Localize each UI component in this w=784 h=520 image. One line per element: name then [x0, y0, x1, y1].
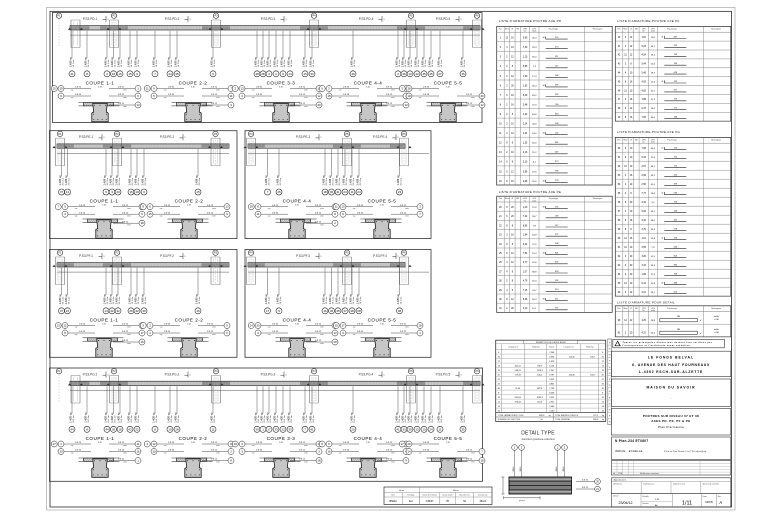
- bottom material table: [384, 487, 492, 505]
- svg-text:1 Ø 20: 1 Ø 20: [79, 331, 86, 333]
- svg-text:Bureau de contrôle: Bureau de contrôle: [703, 483, 719, 486]
- svg-text:41: 41: [70, 72, 74, 76]
- span label P.S3.PG.1: [83, 372, 110, 378]
- span label P.S3.PG.2: [165, 372, 192, 378]
- vertical index strip: [608, 339, 612, 425]
- svg-text:14: 14: [104, 309, 108, 313]
- section COUPE 1-1: [51, 81, 141, 122]
- title block revision table: [611, 461, 730, 476]
- svg-text:18: 18: [323, 190, 327, 194]
- svg-text:Nbre: Nbre: [623, 27, 627, 30]
- svg-text:etrier: etrier: [391, 96, 395, 99]
- svg-text:179,43: 179,43: [515, 375, 522, 377]
- svg-text:Ingénieur g.c.: Ingénieur g.c.: [643, 483, 655, 486]
- svg-text:COUPE 5-5: COUPE 5-5: [368, 199, 397, 204]
- svg-text:12: 12: [63, 324, 67, 328]
- svg-text:COUPE 2-2: COUPE 2-2: [175, 199, 204, 204]
- title block plan number: [611, 437, 730, 460]
- svg-text:16: 16: [118, 72, 122, 76]
- svg-text:2 Ø 12: 2 Ø 12: [118, 87, 125, 89]
- svg-text:20 1.4m: 20 1.4m: [411, 415, 413, 423]
- svg-text:20 1.4m: 20 1.4m: [138, 297, 140, 305]
- svg-text:40: 40: [543, 85, 545, 87]
- svg-text:COUPE 4-4: COUPE 4-4: [283, 318, 312, 323]
- svg-text:sup: sup: [419, 90, 422, 92]
- svg-text:P.S3.PD.5: P.S3.PD.5: [436, 17, 451, 21]
- section COUPE 2-2: [144, 81, 234, 122]
- svg-text:4,54: 4,54: [641, 55, 646, 57]
- svg-text:etrier: etrier: [304, 96, 308, 99]
- svg-text:13: 13: [66, 190, 70, 194]
- svg-text:etrier: etrier: [471, 96, 475, 99]
- svg-text:4,82: 4,82: [641, 90, 646, 92]
- svg-text:13: 13: [333, 331, 337, 335]
- band 3 (axe PF) left box: [50, 250, 238, 358]
- svg-text:etrier: etrier: [123, 89, 127, 92]
- svg-text:sup: sup: [339, 445, 342, 447]
- svg-text:Enr: Enr: [409, 500, 413, 503]
- svg-text:LISTE D'ARMATURE POUR DETAIL: LISTE D'ARMATURE POUR DETAIL: [617, 301, 675, 305]
- beam strip: [57, 263, 229, 272]
- svg-text:P.S3.PD.1: P.S3.PD.1: [83, 17, 98, 21]
- svg-text:1,43: 1,43: [523, 207, 528, 209]
- svg-text:15: 15: [461, 72, 465, 76]
- svg-text:etrier: etrier: [405, 214, 409, 217]
- svg-text:etrier: etrier: [391, 105, 395, 108]
- svg-text:17: 17: [401, 442, 405, 446]
- svg-text:etrier: etrier: [123, 105, 127, 108]
- svg-text:L-4362 ESCH-SUR-ALZETTE: L-4362 ESCH-SUR-ALZETTE: [639, 370, 703, 374]
- svg-text:20 1.4m: 20 1.4m: [199, 297, 201, 305]
- svg-text:2 Ø 12: 2 Ø 12: [118, 442, 125, 444]
- svg-text:28: 28: [357, 309, 361, 313]
- svg-text:2 Ø 12: 2 Ø 12: [207, 205, 214, 207]
- svg-text:P.S3.PD.2: P.S3.PD.2: [165, 17, 180, 21]
- svg-text:Rev: Rev: [718, 496, 721, 498]
- svg-text:1:25: 1:25: [295, 205, 299, 207]
- svg-text:1 Ø 20: 1 Ø 20: [272, 205, 279, 207]
- svg-text:20 1.4m: 20 1.4m: [171, 60, 173, 68]
- svg-text:20 1.4m: 20 1.4m: [214, 60, 216, 68]
- svg-text:38: 38: [255, 72, 259, 76]
- title block drawing name: [611, 409, 730, 436]
- svg-text:sup: sup: [71, 453, 74, 455]
- svg-text:538,24: 538,24: [515, 370, 522, 372]
- svg-text:5,31: 5,31: [641, 283, 646, 285]
- svg-text:kg: kg: [602, 415, 604, 417]
- svg-text:20 1.4m: 20 1.4m: [326, 297, 328, 305]
- svg-text:Pos: Pos: [499, 28, 502, 30]
- svg-text:Classe d'expo.: Classe d'expo.: [442, 494, 453, 496]
- svg-text:1,07: 1,07: [523, 271, 528, 273]
- svg-text:Poids kg: Poids kg: [586, 346, 593, 348]
- svg-text:20 1.4m: 20 1.4m: [108, 415, 110, 423]
- svg-text:P.S3.PD.4: P.S3.PD.4: [359, 17, 374, 21]
- svg-text:NOMBRE DE POSITIONS: NOMBRE DE POSITIONS: [498, 419, 521, 421]
- svg-text:44: 44: [105, 427, 109, 431]
- svg-text:1:25: 1:25: [191, 442, 195, 444]
- svg-text:2 Ø 12: 2 Ø 12: [400, 324, 407, 326]
- svg-text:39: 39: [351, 72, 355, 76]
- svg-text:P.S3.PG.5: P.S3.PG.5: [436, 373, 451, 377]
- svg-text:sup: sup: [419, 445, 422, 447]
- svg-text:2 Ø 12: 2 Ø 12: [118, 450, 125, 452]
- svg-text:TOTAL BARRES+TREILLIS: TOTAL BARRES+TREILLIS: [555, 414, 579, 417]
- svg-text:etrier: etrier: [405, 326, 409, 329]
- svg-text:1 Ø 20: 1 Ø 20: [357, 205, 364, 207]
- svg-text:44: 44: [70, 427, 74, 431]
- span label P.S3.PE.2: [160, 134, 187, 140]
- svg-text:39: 39: [408, 427, 412, 431]
- svg-text:2 Ø 12: 2 Ø 12: [211, 103, 218, 105]
- svg-text:20 1.4m: 20 1.4m: [339, 178, 341, 186]
- support label circles: [57, 250, 218, 285]
- svg-text:sup: sup: [353, 334, 356, 336]
- svg-text:4,76: 4,76: [523, 281, 528, 283]
- svg-text:1:25: 1:25: [102, 205, 106, 207]
- svg-text:1 Ø 20: 1 Ø 20: [75, 94, 82, 96]
- svg-text:20 1.4m: 20 1.4m: [268, 297, 270, 305]
- svg-text:20 1.4m: 20 1.4m: [425, 60, 427, 68]
- svg-text:16: 16: [140, 340, 144, 344]
- svg-text:20 1.4m: 20 1.4m: [464, 60, 466, 68]
- svg-text:1 Ø 20: 1 Ø 20: [164, 205, 171, 207]
- svg-text:2,47: 2,47: [641, 108, 646, 110]
- svg-text:16: 16: [136, 450, 140, 454]
- svg-text:30274: 30274: [593, 419, 598, 421]
- svg-text:2 Ø 12: 2 Ø 12: [299, 442, 306, 444]
- svg-text:13: 13: [404, 103, 408, 107]
- svg-text:sup: sup: [353, 327, 356, 329]
- svg-text:P.S3.PD.3: P.S3.PD.3: [261, 17, 276, 21]
- svg-text:à 2M: à 2M: [714, 332, 719, 334]
- svg-text:1,89: 1,89: [641, 99, 646, 101]
- svg-text:à 2M: à 2M: [714, 319, 719, 321]
- svg-text:12: 12: [480, 103, 484, 107]
- svg-text:2 Ø 12: 2 Ø 12: [466, 103, 473, 105]
- svg-text:11: 11: [137, 442, 140, 446]
- svg-text:127,1: 127,1: [593, 415, 598, 417]
- svg-text:20 1.4m: 20 1.4m: [121, 415, 123, 423]
- svg-text:20 1.4m: 20 1.4m: [145, 297, 147, 305]
- svg-text:20 1.4m: 20 1.4m: [214, 415, 216, 423]
- svg-text:1/11: 1/11: [682, 501, 692, 507]
- table LISTE D'ARMATURE POUTRE AXE PF: [615, 19, 731, 121]
- rebar position leaders and callout circles: [265, 268, 403, 314]
- svg-text:20 1.4m: 20 1.4m: [68, 178, 70, 186]
- svg-text:2 Ø 12: 2 Ø 12: [386, 94, 393, 96]
- svg-text:sup: sup: [160, 334, 163, 336]
- svg-text:2,16: 2,16: [523, 152, 528, 154]
- svg-text:19: 19: [168, 427, 172, 431]
- svg-text:18: 18: [407, 87, 411, 91]
- svg-text:2 Ø 12: 2 Ø 12: [386, 459, 393, 461]
- svg-text:sup: sup: [419, 453, 422, 455]
- svg-text:LISTE D'ARMATURE POUTRE AXE PG: LISTE D'ARMATURE POUTRE AXE PG: [617, 130, 680, 134]
- svg-text:40: 40: [661, 238, 663, 240]
- svg-text:44: 44: [168, 72, 172, 76]
- span label P.S3.PF.4: [373, 253, 399, 259]
- svg-text:P.S3.PE.2: P.S3.PE.2: [160, 135, 175, 139]
- svg-text:1 Ø 20: 1 Ø 20: [343, 450, 350, 452]
- svg-text:1:25: 1:25: [279, 86, 283, 88]
- section COUPE 5-5: [399, 81, 485, 122]
- svg-text:1 Ø 20: 1 Ø 20: [256, 450, 263, 452]
- svg-text:2 Ø 12: 2 Ø 12: [207, 324, 214, 326]
- svg-text:1 Ø 20: 1 Ø 20: [343, 94, 350, 96]
- svg-text:38: 38: [350, 309, 354, 313]
- svg-text:etrier: etrier: [320, 214, 324, 217]
- support label circles: [248, 131, 406, 166]
- svg-text:18: 18: [250, 205, 254, 209]
- title block address: [611, 351, 730, 377]
- svg-text:33: 33: [402, 427, 406, 431]
- svg-text:sup: sup: [268, 208, 271, 210]
- svg-text:COUPE 5-5: COUPE 5-5: [434, 81, 463, 86]
- svg-text:13: 13: [225, 205, 229, 209]
- section COUPE 4-4: [319, 436, 409, 477]
- svg-text:sup: sup: [339, 90, 342, 92]
- svg-text:etrier: etrier: [405, 207, 409, 210]
- svg-text:1:25: 1:25: [279, 442, 283, 444]
- support columns: [244, 257, 412, 285]
- svg-text:kg: kg: [549, 415, 551, 417]
- svg-text:2 Ø 12: 2 Ø 12: [207, 331, 214, 333]
- svg-text:2 Ø 12: 2 Ø 12: [122, 340, 129, 342]
- svg-text:33: 33: [274, 427, 278, 431]
- svg-text:1,01: 1,01: [641, 238, 646, 240]
- svg-text:etrier: etrier: [471, 452, 475, 455]
- svg-text:37: 37: [60, 309, 64, 313]
- svg-text:20: 20: [317, 103, 321, 107]
- svg-text:B500A: B500A: [390, 500, 398, 503]
- svg-text:20 1.4m: 20 1.4m: [353, 297, 355, 305]
- svg-text:1 Ø 20: 1 Ø 20: [164, 324, 171, 326]
- svg-text:7,368: 7,368: [549, 352, 555, 354]
- section COUPE 4-4: [248, 318, 338, 358]
- svg-text:2,959: 2,959: [549, 379, 555, 381]
- svg-text:2,15: 2,15: [523, 162, 528, 164]
- rebar position leaders and callout circles: [59, 268, 202, 314]
- svg-text:DETAIL TYPE: DETAIL TYPE: [521, 431, 555, 437]
- svg-text:1378,3: 1378,3: [537, 370, 544, 372]
- svg-text:2 Ø 12: 2 Ø 12: [118, 459, 125, 461]
- svg-text:3,42: 3,42: [641, 220, 646, 222]
- svg-text:20 1.4m: 20 1.4m: [138, 178, 140, 186]
- svg-text:etrier: etrier: [320, 326, 324, 329]
- svg-text:1,15: 1,15: [523, 57, 528, 59]
- svg-text:etrier: etrier: [212, 326, 216, 329]
- detail type drawing: [502, 431, 601, 502]
- svg-text:24: 24: [357, 190, 361, 194]
- svg-text:sup: sup: [160, 327, 163, 329]
- support label circles: [248, 250, 406, 285]
- svg-text:4,31: 4,31: [641, 333, 646, 335]
- svg-text:MAISON DU SAVOIR: MAISON DU SAVOIR: [646, 385, 695, 389]
- span label P.S3.PE.1: [79, 134, 106, 140]
- svg-text:476,44: 476,44: [515, 402, 522, 404]
- svg-text:18: 18: [317, 459, 321, 463]
- svg-text:sup: sup: [75, 208, 78, 210]
- table LISTE D'ARMATURE POUTRE AXE PD: [497, 19, 613, 185]
- svg-text:19: 19: [135, 190, 139, 194]
- svg-text:20 1.4m: 20 1.4m: [121, 60, 123, 68]
- svg-text:1 Ø 20: 1 Ø 20: [423, 450, 430, 452]
- svg-text:etrier: etrier: [216, 89, 220, 92]
- svg-text:20 1.4m: 20 1.4m: [171, 415, 173, 423]
- rebar position leaders and callout circles: [59, 149, 202, 195]
- svg-text:P.S3.PG.2: P.S3.PG.2: [165, 373, 180, 377]
- span label P.S3.PD.3: [261, 16, 288, 22]
- svg-text:1,42: 1,42: [523, 114, 528, 116]
- svg-text:B Ind de Plan Niveau 3 ref T16: B Ind de Plan Niveau 3 ref T16 Ind(ind)(…: [664, 450, 707, 453]
- svg-text:35: 35: [336, 309, 340, 313]
- svg-text:22: 22: [135, 427, 139, 431]
- svg-text:etrier: etrier: [405, 333, 409, 336]
- svg-text:1:25: 1:25: [366, 442, 370, 444]
- svg-text:1,81: 1,81: [641, 37, 646, 39]
- svg-text:etrier: etrier: [216, 444, 220, 447]
- svg-text:etrier: etrier: [212, 207, 216, 210]
- support label circles: [56, 369, 479, 404]
- svg-text:502,63: 502,63: [515, 397, 522, 399]
- svg-text:Remarques: Remarques: [711, 138, 721, 141]
- svg-text:Approbations: Approbations: [614, 479, 628, 482]
- svg-text:3,32: 3,32: [641, 202, 646, 204]
- svg-text:20 1.4m: 20 1.4m: [400, 297, 402, 305]
- svg-text:2 Ø 12: 2 Ø 12: [466, 459, 473, 461]
- svg-text:5,34: 5,34: [523, 244, 528, 246]
- svg-text:REPARTITION DE L'ACIER B500B: REPARTITION DE L'ACIER B500B: [536, 341, 566, 344]
- svg-text:32: 32: [116, 309, 120, 313]
- svg-text:20 1.4m: 20 1.4m: [441, 60, 443, 68]
- svg-text:50: 50: [541, 419, 543, 421]
- svg-text:4,24: 4,24: [523, 133, 528, 135]
- svg-text:1:25: 1:25: [98, 442, 102, 444]
- svg-text:20 1.4m: 20 1.4m: [313, 415, 315, 423]
- svg-text:Totaux: Totaux: [549, 345, 555, 348]
- svg-text:etrier: etrier: [216, 461, 220, 464]
- svg-text:156,7: 156,7: [590, 375, 596, 377]
- svg-text:20 1.4m: 20 1.4m: [418, 415, 420, 423]
- svg-text:20 1.4m: 20 1.4m: [432, 60, 434, 68]
- svg-text:3,77: 3,77: [523, 262, 528, 264]
- svg-text:40: 40: [661, 283, 663, 285]
- svg-text:Modifications armatures: Modifications armatures: [640, 472, 659, 475]
- svg-text:2,56: 2,56: [641, 175, 646, 177]
- svg-text:17: 17: [140, 331, 144, 335]
- section COUPE 1-1: [55, 318, 145, 358]
- svg-text:42: 42: [110, 309, 114, 313]
- svg-text:sup: sup: [71, 90, 74, 92]
- svg-text:Façonnage: Façonnage: [667, 28, 676, 30]
- svg-text:COUPE 2-2: COUPE 2-2: [179, 436, 208, 441]
- svg-text:17: 17: [53, 442, 57, 446]
- svg-text:Pos: Pos: [617, 28, 620, 30]
- svg-text:42: 42: [128, 427, 132, 431]
- svg-text:2 Ø 12: 2 Ø 12: [299, 87, 306, 89]
- svg-text:2 Ø 12: 2 Ø 12: [122, 324, 129, 326]
- svg-text:1:25: 1:25: [187, 205, 191, 207]
- svg-text:COUPE 2-2: COUPE 2-2: [175, 318, 204, 323]
- svg-text:20: 20: [333, 340, 337, 344]
- svg-text:12: 12: [281, 427, 285, 431]
- svg-text:16: 16: [327, 450, 331, 454]
- svg-text:20 1.4m: 20 1.4m: [354, 60, 356, 68]
- svg-text:4,801: 4,801: [549, 384, 555, 386]
- svg-text:20 1.4m: 20 1.4m: [354, 415, 356, 423]
- svg-text:1 Ø 20: 1 Ø 20: [79, 205, 86, 207]
- svg-text:20 1.4m: 20 1.4m: [360, 178, 362, 186]
- span label P.S3.PE.4: [373, 134, 400, 140]
- band 3 (axe PF) right box: [245, 250, 431, 358]
- svg-text:43: 43: [116, 190, 120, 194]
- svg-text:1 Ø 20: 1 Ø 20: [168, 87, 175, 89]
- svg-text:20 1.4m: 20 1.4m: [291, 60, 293, 68]
- svg-text:etrier: etrier: [127, 333, 131, 336]
- svg-text:11: 11: [146, 87, 149, 91]
- svg-text:20: 20: [59, 450, 63, 454]
- table LISTE D'ARMATURE POUTRE AXE PG: [615, 130, 731, 296]
- svg-text:Remarques: Remarques: [593, 27, 603, 30]
- svg-text:13: 13: [341, 205, 345, 209]
- title block warning note: [613, 339, 725, 348]
- svg-text:7,008: 7,008: [549, 406, 555, 408]
- svg-text:19: 19: [59, 87, 63, 91]
- svg-text:2 Ø 12: 2 Ø 12: [315, 331, 322, 333]
- svg-text:sup: sup: [353, 208, 356, 210]
- support columns: [244, 138, 412, 166]
- svg-text:1,678: 1,678: [549, 361, 555, 363]
- band 2 (axe PE) left box: [50, 131, 238, 239]
- svg-text:30: 30: [330, 190, 334, 194]
- svg-text:19: 19: [234, 442, 238, 446]
- svg-text:treillis: treillis: [714, 328, 719, 331]
- svg-text:2 Ø 12: 2 Ø 12: [122, 221, 129, 223]
- support columns: [53, 257, 224, 285]
- svg-text:11: 11: [335, 205, 338, 209]
- svg-text:Façonnage: Façonnage: [549, 28, 558, 30]
- svg-text:20 1.4m: 20 1.4m: [418, 60, 420, 68]
- svg-text:40: 40: [543, 207, 545, 209]
- beam strip: [70, 26, 480, 35]
- svg-text:40: 40: [661, 81, 663, 83]
- span label P.S3.PF.2: [160, 253, 186, 259]
- svg-text:15: 15: [148, 212, 152, 216]
- svg-text:etrier: etrier: [123, 461, 127, 464]
- svg-text:LISTE D'ARMATURE POUTRE AXE PE: LISTE D'ARMATURE POUTRE AXE PE: [499, 190, 562, 194]
- svg-text:!: !: [618, 342, 619, 346]
- svg-text:3,55: 3,55: [641, 247, 646, 249]
- svg-text:Longueur m: Longueur m: [564, 345, 575, 348]
- svg-text:5,28: 5,28: [523, 299, 528, 301]
- svg-text:1 Ø 20: 1 Ø 20: [79, 212, 86, 214]
- svg-text:17.04: 17.04: [618, 473, 622, 475]
- svg-text:42: 42: [415, 72, 419, 76]
- svg-text:1 Ø 20: 1 Ø 20: [79, 324, 86, 326]
- svg-text:20 1.4m: 20 1.4m: [353, 178, 355, 186]
- svg-text:AXES PD, PE, PF & PG: AXES PD, PE, PF & PG: [651, 419, 691, 423]
- svg-text:20 1.4m: 20 1.4m: [73, 415, 75, 423]
- svg-text:etrier: etrier: [391, 461, 395, 464]
- svg-text:1 Ø 20: 1 Ø 20: [272, 324, 279, 326]
- svg-text:2 Ø 12: 2 Ø 12: [211, 459, 218, 461]
- svg-text:17: 17: [267, 427, 271, 431]
- svg-text:totale: totale: [532, 199, 536, 202]
- svg-text:1:25: 1:25: [187, 323, 191, 325]
- svg-text:14: 14: [250, 324, 254, 328]
- svg-text:40: 40: [543, 299, 545, 301]
